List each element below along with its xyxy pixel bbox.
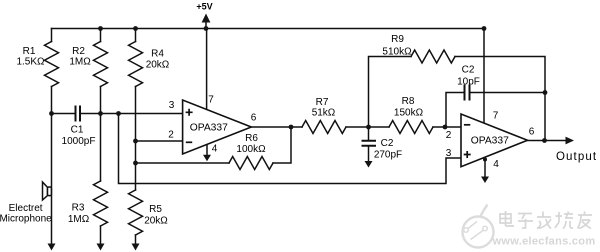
wire R7 to R8 bbox=[346, 126, 389, 128]
resistor R7 bbox=[302, 121, 346, 134]
node R7 R8 / C2 / R9 bbox=[366, 125, 371, 130]
电 bbox=[500, 214, 511, 223]
wire R6 to output node bbox=[273, 127, 291, 163]
node reference branch bbox=[116, 111, 121, 116]
electret microphone symbol bbox=[43, 182, 52, 200]
svg-text:Electret: Electret bbox=[9, 203, 43, 214]
友 bbox=[578, 212, 593, 229]
wire +5V bus bbox=[52, 28, 485, 30]
node R8 / C2 10pF bbox=[443, 125, 448, 130]
wire R4 top lead bbox=[135, 29, 137, 42]
wire output bbox=[528, 140, 567, 142]
svg-text:1MΩ: 1MΩ bbox=[68, 214, 90, 225]
resistor R6 bbox=[229, 157, 273, 170]
wire op1 pin 7 supply bbox=[206, 29, 208, 111]
svg-text:1000pF: 1000pF bbox=[62, 136, 96, 147]
svg-text:4: 4 bbox=[212, 144, 218, 155]
wire op2 pin 4 stub bbox=[484, 158, 486, 177]
op-amp U1 OPA337 bbox=[183, 100, 252, 154]
svg-text:10pF: 10pF bbox=[457, 77, 480, 88]
svg-text:6: 6 bbox=[251, 113, 257, 124]
svg-text:20kΩ: 20kΩ bbox=[144, 216, 168, 227]
wire C2 270pF stub bbox=[368, 127, 370, 140]
wire op1 output row bbox=[251, 126, 302, 128]
resistor R4 bbox=[129, 42, 143, 87]
svg-text:Microphone: Microphone bbox=[0, 214, 52, 225]
wire C2 10pF left leg bbox=[446, 93, 465, 128]
wire reference branch down and across bbox=[119, 114, 462, 184]
wire R2 top lead bbox=[100, 29, 102, 42]
svg-text:2: 2 bbox=[168, 130, 174, 141]
capacitor C1 bbox=[76, 107, 81, 121]
svg-text:R7: R7 bbox=[316, 97, 329, 108]
node bus-R2 bbox=[98, 26, 103, 31]
svg-text:R8: R8 bbox=[402, 96, 415, 107]
svg-text:510kΩ: 510kΩ bbox=[382, 47, 412, 58]
svg-text:C2: C2 bbox=[381, 138, 394, 149]
ground microphone bbox=[48, 244, 56, 251]
node R4 pin2 bbox=[133, 139, 138, 144]
svg-text:R5: R5 bbox=[149, 204, 162, 215]
ground op1 pin 4 bbox=[203, 155, 211, 162]
ground R3 bbox=[97, 244, 105, 251]
svg-text:3: 3 bbox=[446, 148, 452, 159]
wire R4 to R5 column bbox=[135, 87, 137, 191]
svg-text:OPA337: OPA337 bbox=[190, 122, 228, 133]
svg-text:51kΩ: 51kΩ bbox=[312, 108, 336, 119]
wire +5V arrow stem bbox=[205, 22, 207, 29]
svg-text:7: 7 bbox=[208, 95, 214, 106]
svg-text:R4: R4 bbox=[151, 49, 164, 60]
wire op2 pin 7 supply bbox=[483, 29, 485, 124]
wire R3 top lead bbox=[100, 114, 102, 182]
ground op2 pin 4 bbox=[481, 177, 489, 184]
svg-text:C2: C2 bbox=[462, 65, 475, 76]
wire op1 pin 2 bbox=[136, 140, 183, 142]
svg-text:7: 7 bbox=[493, 111, 499, 122]
svg-text:R9: R9 bbox=[391, 34, 404, 45]
node mic / C1 bbox=[49, 111, 54, 116]
wire C2 270pF to ground bbox=[368, 146, 370, 161]
node op2 output bbox=[542, 138, 547, 143]
resistor R5 bbox=[129, 190, 143, 235]
power +5V arrow bbox=[202, 14, 211, 23]
op-amp U2 OPA337 bbox=[461, 114, 528, 167]
node C1 / R2 R3 bbox=[98, 111, 103, 116]
wire R9 right leg bbox=[455, 57, 545, 141]
capacitor C2 10pF bbox=[465, 86, 470, 100]
svg-text:4: 4 bbox=[493, 159, 499, 170]
svg-text:150kΩ: 150kΩ bbox=[394, 108, 424, 119]
resistor R2 bbox=[94, 42, 108, 87]
wire R2 bottom lead bbox=[100, 87, 102, 114]
svg-text:Output: Output bbox=[556, 151, 597, 163]
wire feedback row to R6 bbox=[136, 162, 230, 164]
node bus +5V entry bbox=[204, 26, 209, 31]
svg-text:6: 6 bbox=[529, 127, 535, 138]
svg-text:270pF: 270pF bbox=[374, 150, 402, 161]
svg-text:www.elecfans.com: www.elecfans.com bbox=[492, 236, 596, 248]
wire microphone column bbox=[51, 114, 53, 245]
output arrow head bbox=[566, 137, 575, 145]
resistor R8 bbox=[389, 121, 433, 134]
node R4 feedback bbox=[133, 161, 138, 166]
svg-text:20kΩ: 20kΩ bbox=[146, 60, 170, 71]
wire C2 10pF right leg bbox=[470, 92, 546, 94]
node op1 output / R6 bbox=[289, 125, 294, 130]
svg-text:1MΩ: 1MΩ bbox=[69, 57, 91, 68]
wire R9 left leg bbox=[369, 57, 412, 128]
烧 bbox=[555, 212, 573, 229]
wire R5 bottom lead bbox=[135, 235, 137, 244]
svg-text:R3: R3 bbox=[72, 203, 85, 214]
node op2 pin 4 bbox=[483, 158, 487, 162]
wire input row to op-amp pin 3 bbox=[80, 113, 183, 115]
resistor R1 bbox=[45, 42, 59, 87]
wire R8 to op2 pin 2 bbox=[433, 126, 461, 128]
node bus-R4 bbox=[133, 26, 138, 31]
wire R1 bottom lead bbox=[51, 87, 53, 114]
svg-text:R6: R6 bbox=[245, 133, 258, 144]
svg-text:+5V: +5V bbox=[196, 2, 212, 12]
node bus op2 pin7 bbox=[482, 26, 487, 31]
watermark chinese text 电子发烧友 bbox=[500, 211, 592, 229]
svg-text:2: 2 bbox=[446, 130, 452, 141]
wire R3 bottom lead bbox=[100, 226, 102, 244]
ground C2 270pF bbox=[365, 161, 373, 168]
capacitor C2 270pF bbox=[363, 141, 376, 146]
发 bbox=[537, 212, 551, 229]
wire R1 top lead bbox=[51, 29, 53, 42]
wire input row left bbox=[52, 113, 76, 115]
watermark logo bbox=[463, 205, 494, 248]
ground R5 bbox=[132, 244, 140, 251]
子 bbox=[518, 214, 533, 229]
svg-text:C1: C1 bbox=[71, 125, 84, 136]
svg-text:100kΩ: 100kΩ bbox=[236, 144, 266, 155]
svg-text:OPA337: OPA337 bbox=[471, 136, 509, 147]
resistor R9 bbox=[411, 50, 455, 63]
resistor R3 bbox=[94, 181, 108, 226]
svg-text:1.5KΩ: 1.5KΩ bbox=[16, 57, 45, 68]
svg-text:3: 3 bbox=[169, 100, 175, 111]
wire op1 pin 4 stub bbox=[206, 144, 208, 155]
node C2 10pF / R9 column bbox=[543, 90, 548, 95]
svg-text:R2: R2 bbox=[72, 46, 85, 57]
svg-text:R1: R1 bbox=[23, 46, 36, 57]
